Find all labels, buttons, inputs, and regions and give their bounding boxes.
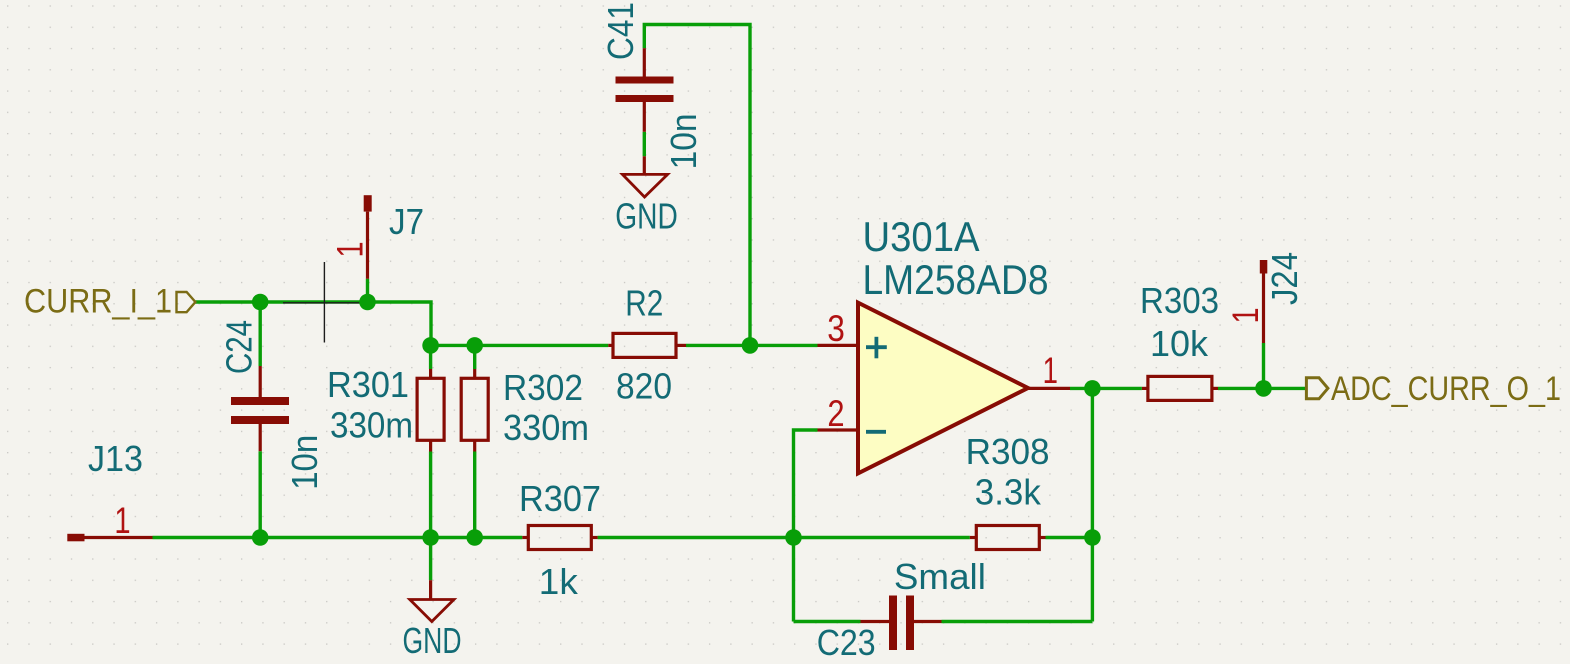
svg-text:GND: GND xyxy=(615,196,678,237)
junction bottom C24 xyxy=(252,529,269,546)
junction top A xyxy=(252,294,269,311)
CURR_I_1 arrow outline xyxy=(177,292,196,312)
wire C24 top xyxy=(259,302,262,366)
svg-text:Small: Small xyxy=(894,556,986,597)
GND triangle xyxy=(410,600,454,622)
C23 right plate xyxy=(906,596,914,651)
wire feedback vertical xyxy=(1091,388,1094,621)
pin name - xyxy=(866,430,886,434)
svg-text:1: 1 xyxy=(1043,350,1058,391)
svg-text:C24: C24 xyxy=(219,320,260,374)
wire GND drop bottom xyxy=(429,538,432,581)
svg-text:J13: J13 xyxy=(88,438,143,479)
wire bottom row mid xyxy=(598,536,970,539)
svg-text:J7: J7 xyxy=(389,201,424,242)
svg-text:R302: R302 xyxy=(503,367,583,408)
U301A pin 1 output xyxy=(1028,387,1070,390)
R303 body xyxy=(1148,376,1212,400)
capacitor C41 xyxy=(600,2,704,169)
C23 pin 1 lead xyxy=(861,620,890,623)
GND pin xyxy=(643,156,646,174)
resistor R307 xyxy=(519,478,601,602)
R308 pin 1 lead xyxy=(970,536,977,539)
R308 pin 2 lead xyxy=(1039,536,1045,539)
connector J7 xyxy=(330,195,425,279)
resistor R308 xyxy=(966,431,1050,550)
wire opamp output xyxy=(1070,387,1142,390)
svg-text:U301A: U301A xyxy=(863,213,980,260)
svg-text:R301: R301 xyxy=(327,364,409,405)
C41 top plate xyxy=(616,77,674,84)
svg-text:330m: 330m xyxy=(503,407,589,448)
crosshair cursor xyxy=(283,262,366,343)
wire C23 right xyxy=(942,620,1093,623)
wire J24 stub xyxy=(1262,343,1265,388)
wire row B to R2 xyxy=(431,344,608,347)
svg-text:10n: 10n xyxy=(663,113,704,169)
R2 pin 2 lead xyxy=(676,344,686,347)
svg-text:820: 820 xyxy=(616,366,672,407)
svg-text:1k: 1k xyxy=(539,561,579,602)
svg-text:ADC_CURR_O_1: ADC_CURR_O_1 xyxy=(1331,370,1561,408)
junction J24 xyxy=(1255,380,1272,397)
svg-text:LM258AD8: LM258AD8 xyxy=(863,256,1049,303)
wire inverting input xyxy=(794,430,818,622)
U301A pin 3 non-inverting input xyxy=(818,344,859,347)
junction bottom R301 xyxy=(422,529,439,546)
junction bottom R302 xyxy=(466,529,483,546)
R308 body xyxy=(976,526,1039,550)
connector J24 xyxy=(1225,252,1305,343)
J24 pin 1 xyxy=(1262,273,1265,343)
junction row B riser xyxy=(742,337,759,354)
wire J7 stub xyxy=(366,279,369,302)
R302 body xyxy=(461,378,488,440)
GND triangle xyxy=(622,174,667,197)
R2 pin 1 lead xyxy=(608,344,613,347)
R307 pin 1 lead xyxy=(522,536,528,539)
junction bottom inverting xyxy=(785,529,802,546)
resistor R301 xyxy=(327,364,444,452)
svg-text:330m: 330m xyxy=(330,405,413,446)
R303 pin 2 lead xyxy=(1212,387,1218,390)
hierarchical label ADC_CURR_O_1 xyxy=(1306,370,1561,408)
C24 top plate xyxy=(231,397,289,405)
GND pin xyxy=(429,580,432,599)
wire bottom row right xyxy=(1046,536,1093,539)
svg-text:1: 1 xyxy=(114,500,130,541)
capacitor C23 xyxy=(817,556,986,663)
R301 pin 2 lead xyxy=(429,440,432,451)
R301 pin 1 lead xyxy=(429,369,432,378)
C23 left plate xyxy=(889,596,897,651)
junction bottom feedback xyxy=(1084,529,1101,546)
svg-text:R303: R303 xyxy=(1140,280,1219,321)
capacitor C24 xyxy=(219,320,326,490)
svg-text:R308: R308 xyxy=(966,431,1050,472)
op-amp U301A xyxy=(818,213,1071,473)
wire R302 bottom xyxy=(473,452,476,538)
wire R302 top xyxy=(473,345,476,369)
junction output xyxy=(1084,380,1101,397)
R302 pin 2 lead xyxy=(473,440,476,451)
svg-text:J24: J24 xyxy=(1264,252,1305,305)
junction row B R301 xyxy=(422,337,439,354)
C24 pin 1 lead xyxy=(259,366,262,397)
wire vertical C41 riser xyxy=(644,25,750,346)
R307 pin 2 lead xyxy=(591,536,597,539)
wire C41 bottom to GND xyxy=(643,132,646,157)
svg-text:1: 1 xyxy=(1225,308,1266,324)
svg-text:10n: 10n xyxy=(284,435,325,490)
hierarchical label CURR_I_1 xyxy=(24,283,195,321)
svg-text:R307: R307 xyxy=(519,478,601,519)
resistor R302 xyxy=(461,367,589,452)
svg-text:3.3k: 3.3k xyxy=(975,472,1042,513)
svg-text:C23: C23 xyxy=(817,622,876,663)
svg-text:CURR_I_1: CURR_I_1 xyxy=(24,283,172,321)
wire R2 to junction xyxy=(686,344,750,347)
connector J13 xyxy=(67,438,152,541)
U301A pin 2 inverting input xyxy=(818,428,859,431)
J13 pin 1 xyxy=(85,536,153,539)
C24 bottom plate xyxy=(231,416,289,424)
wire top from CURR_I_1 to corner xyxy=(196,302,432,345)
svg-text:2: 2 xyxy=(827,393,844,434)
R301 body xyxy=(417,378,444,440)
svg-text:C41: C41 xyxy=(600,2,641,60)
U301A triangle body xyxy=(858,303,1028,474)
C41 pin 1 lead xyxy=(643,48,646,76)
wire R303 to label xyxy=(1218,387,1306,390)
R303 pin 1 lead xyxy=(1142,387,1148,390)
R307 body xyxy=(528,526,591,550)
ground symbol top xyxy=(615,156,678,236)
C41 bottom plate xyxy=(616,95,674,102)
pin name + xyxy=(866,337,887,359)
C41 pin 2 lead xyxy=(643,102,646,132)
R302 pin 1 lead xyxy=(473,369,476,378)
wire junction to opamp pin3 xyxy=(750,344,818,347)
wire C24 bottom xyxy=(259,451,262,537)
junction row B R302 xyxy=(466,337,483,354)
junction top B xyxy=(359,294,376,311)
R2 body xyxy=(613,333,676,357)
resistor R303 xyxy=(1140,280,1219,400)
svg-text:10k: 10k xyxy=(1150,323,1209,364)
svg-text:1: 1 xyxy=(330,242,371,258)
resistor R2 xyxy=(608,283,686,407)
J7 pin 1 xyxy=(366,212,369,279)
svg-text:R2: R2 xyxy=(625,283,663,324)
J13 body square xyxy=(67,534,84,542)
C23 pin 2 lead xyxy=(914,620,942,623)
J7 body square xyxy=(364,195,372,211)
svg-text:GND: GND xyxy=(403,620,462,661)
svg-text:3: 3 xyxy=(827,308,845,349)
wire C23 left xyxy=(794,620,861,623)
wire R301 top xyxy=(429,345,432,369)
J24 body square xyxy=(1260,260,1268,274)
ground symbol bottom xyxy=(403,580,462,661)
wire bottom row left xyxy=(153,536,523,539)
C24 pin 2 lead xyxy=(259,424,262,451)
wire R301 bottom xyxy=(429,452,432,538)
ADC_CURR_O_1 arrow outline xyxy=(1306,378,1328,399)
